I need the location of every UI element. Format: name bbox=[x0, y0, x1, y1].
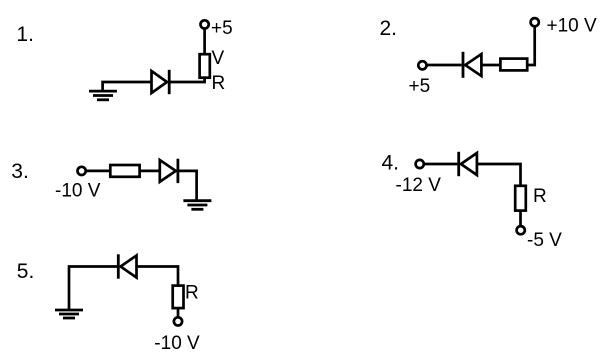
terminal node -10 V (circuit 5) bbox=[174, 317, 182, 325]
terminal node +5 (circuit 1) bbox=[201, 20, 209, 28]
svg-text:-5 V: -5 V bbox=[527, 230, 562, 251]
svg-text:5.: 5. bbox=[17, 260, 35, 283]
svg-text:2.: 2. bbox=[380, 17, 398, 40]
svg-text:V: V bbox=[212, 48, 225, 69]
svg-text:1.: 1. bbox=[16, 23, 34, 46]
wire from diode anode to resistor R (circuit 2) bbox=[481, 64, 500, 67]
wire from diode D1 anode to ground (circuit 1) bbox=[103, 82, 152, 91]
wire from diode cathode to ground (circuit 3) bbox=[178, 171, 197, 201]
ground symbol (circuit 5) bbox=[55, 310, 83, 318]
svg-text:3.: 3. bbox=[11, 160, 29, 183]
svg-text:4.: 4. bbox=[382, 152, 400, 175]
wire from -12 V terminal to diode cathode (circuit 4) bbox=[424, 163, 457, 166]
wire from +5 terminal to diode cathode (circuit 2) bbox=[427, 64, 462, 67]
svg-text:-10 V: -10 V bbox=[154, 333, 200, 354]
svg-text:-12 V: -12 V bbox=[396, 175, 442, 196]
svg-text:+5: +5 bbox=[409, 76, 431, 97]
diode D4 (circuit 4) bbox=[459, 152, 477, 176]
resistor (circuit 3) bbox=[110, 165, 139, 177]
terminal node +5 (circuit 2) bbox=[418, 61, 426, 69]
resistor R (circuit 5) bbox=[173, 286, 184, 309]
wire from diode anode to resistor R top (circuit 5) bbox=[137, 267, 179, 286]
resistor R (circuit 1) bbox=[200, 54, 210, 77]
terminal node -12 V (circuit 4) bbox=[416, 160, 424, 168]
wire from resistor R bottom to -10 V terminal (circuit 5) bbox=[177, 308, 180, 317]
wire from resistor R to +10 V terminal (circuit 2) bbox=[527, 26, 535, 65]
diode D1 (circuit 1) bbox=[152, 70, 170, 94]
terminal node +10 V (circuit 2) bbox=[531, 18, 539, 26]
svg-text:+10 V: +10 V bbox=[547, 16, 598, 37]
ground symbol (circuit 3) bbox=[183, 201, 211, 210]
wire from -10 V terminal to resistor (circuit 3) bbox=[86, 170, 111, 173]
wire from resistor R bottom to -5 V terminal (circuit 4) bbox=[519, 211, 522, 226]
svg-text:-10 V: -10 V bbox=[55, 181, 101, 202]
svg-text:+5: +5 bbox=[211, 18, 233, 39]
wire from ground up and over to diode cathode (circuit 5) bbox=[69, 267, 117, 311]
diode D2 (circuit 2) bbox=[463, 52, 481, 78]
resistor R (circuit 4) bbox=[515, 186, 526, 211]
wire from resistor R bottom to diode cathode (circuit 1) bbox=[171, 76, 205, 82]
wire from +5 terminal to resistor R top (circuit 1) bbox=[203, 29, 206, 56]
wire from diode anode to resistor R top (circuit 4) bbox=[477, 164, 521, 186]
diode D3 (circuit 3) bbox=[160, 159, 178, 183]
diode D5 (circuit 5) bbox=[118, 254, 136, 278]
svg-text:R: R bbox=[185, 283, 199, 304]
terminal node -5 V (circuit 4) bbox=[517, 226, 525, 234]
terminal node -10 V (circuit 3) bbox=[78, 167, 86, 175]
ground symbol (circuit 1) bbox=[89, 91, 117, 100]
resistor R (circuit 2) bbox=[500, 59, 527, 71]
svg-text:R: R bbox=[212, 73, 226, 94]
wire from resistor to diode anode (circuit 3) bbox=[140, 170, 160, 173]
svg-text:R: R bbox=[533, 186, 547, 207]
